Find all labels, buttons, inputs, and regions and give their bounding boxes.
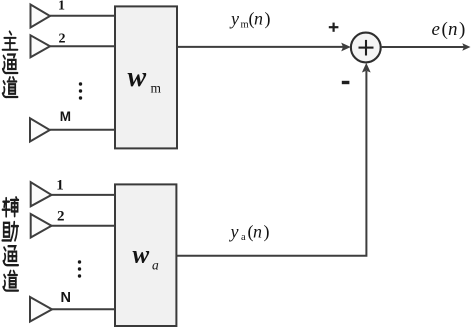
- hanzi 道 (aux): [3, 271, 18, 291]
- label y_m(n): [229, 9, 271, 31]
- block W_m: [115, 6, 177, 148]
- hanzi 主: [3, 31, 18, 49]
- label e(n): [432, 19, 466, 40]
- arrowhead output e(n): [462, 43, 470, 51]
- label y_a(n): [229, 221, 270, 243]
- svg-text:1: 1: [58, 0, 65, 14]
- label w_m: [128, 62, 162, 96]
- svg-text:M: M: [60, 109, 71, 124]
- svg-text:a: a: [241, 232, 246, 243]
- svg-text:a: a: [152, 258, 159, 273]
- svg-text:n: n: [448, 19, 458, 40]
- wire summer to output: [381, 46, 464, 48]
- svg-text:): ): [264, 221, 270, 242]
- hanzi 道 (main): [3, 77, 18, 97]
- wire W_m output to summer: [177, 46, 343, 48]
- svg-text:e: e: [432, 19, 440, 40]
- antenna 1 (aux): [31, 182, 52, 206]
- svg-text:2: 2: [57, 209, 65, 225]
- arrowhead into summer (left): [341, 43, 351, 52]
- minus sign (input polarity): [342, 81, 350, 84]
- hanzi 助: [2, 222, 18, 241]
- svg-text:y: y: [229, 9, 239, 29]
- antenna N (aux): [30, 297, 52, 322]
- svg-text:y: y: [229, 221, 239, 241]
- antenna 2 (aux): [31, 214, 52, 238]
- svg-text:N: N: [61, 290, 71, 306]
- svg-text:(: (: [442, 19, 448, 40]
- arrowhead into summer (bottom): [362, 63, 371, 73]
- wire antenna1 to W_m: [50, 15, 115, 17]
- vertical dots (aux): [78, 260, 81, 277]
- plus inside summer: [359, 40, 374, 56]
- svg-text:m: m: [151, 81, 162, 96]
- antenna 1 (main): [31, 5, 51, 28]
- svg-text:n: n: [254, 9, 263, 29]
- wire antenna2 to W_m: [50, 45, 115, 47]
- svg-text:1: 1: [56, 178, 64, 194]
- vertical dots (main): [79, 82, 82, 99]
- hanzi 辅: [2, 197, 18, 216]
- plus sign (input polarity): [329, 23, 339, 32]
- wire aux antenna1 to W_a: [52, 194, 116, 196]
- summer circle: [351, 33, 381, 63]
- wire antennaN to W_a: [52, 308, 115, 310]
- svg-text:n: n: [253, 221, 262, 241]
- block W_a: [115, 184, 176, 326]
- wire antennaM to W_m: [50, 129, 115, 131]
- wire W_a output (y_a): [177, 71, 367, 256]
- hanzi 通 (aux): [3, 246, 18, 265]
- svg-text:w: w: [128, 62, 147, 93]
- svg-text:w: w: [133, 242, 150, 269]
- svg-text:m: m: [241, 20, 249, 31]
- label w_a: [133, 242, 160, 273]
- svg-text:): ): [459, 19, 465, 40]
- svg-text:2: 2: [59, 32, 66, 47]
- svg-text:): ): [265, 9, 271, 30]
- antenna M (main): [30, 118, 50, 141]
- wire aux antenna2 to W_a: [52, 225, 116, 227]
- antenna 2 (main): [31, 35, 51, 57]
- hanzi 通 (main): [3, 55, 18, 74]
